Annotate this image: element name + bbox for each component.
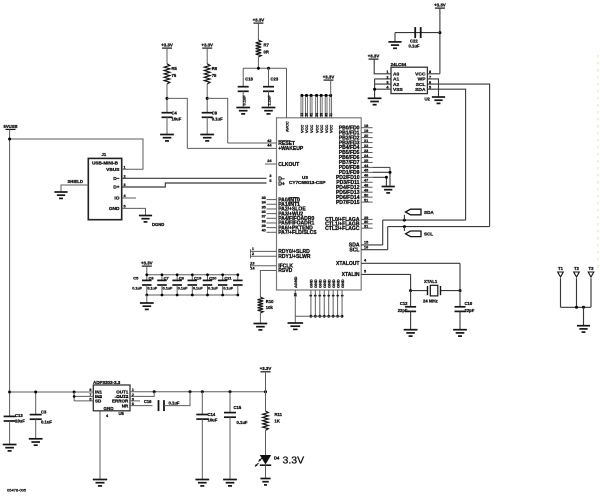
svg-text:0.1uF: 0.1uF bbox=[169, 401, 180, 406]
svg-text:10uF: 10uF bbox=[15, 419, 25, 424]
svg-text:VCC: VCC bbox=[415, 72, 426, 78]
svg-text:SCL: SCL bbox=[416, 82, 426, 88]
svg-text:5: 5 bbox=[364, 270, 366, 274]
svg-text:D+: D+ bbox=[113, 185, 119, 191]
svg-text:0.1uF: 0.1uF bbox=[223, 287, 233, 291]
svg-text:2: 2 bbox=[252, 252, 254, 256]
svg-text:1K: 1K bbox=[275, 419, 280, 424]
svg-text:42: 42 bbox=[267, 139, 271, 143]
svg-text:U3: U3 bbox=[302, 175, 308, 180]
svg-text:0.1uF: 0.1uF bbox=[147, 287, 157, 291]
svg-text:0.1uF: 0.1uF bbox=[193, 287, 203, 291]
svg-text:28: 28 bbox=[319, 113, 323, 117]
svg-text:46: 46 bbox=[364, 174, 368, 178]
svg-text:A1: A1 bbox=[393, 77, 400, 83]
svg-text:40: 40 bbox=[262, 229, 266, 233]
svg-text:0.1uF: 0.1uF bbox=[178, 287, 188, 291]
svg-text:39: 39 bbox=[262, 224, 266, 228]
svg-text:C19: C19 bbox=[194, 276, 202, 281]
svg-text:C4: C4 bbox=[172, 111, 178, 116]
svg-text:GND: GND bbox=[104, 406, 115, 411]
svg-text:3.3V: 3.3V bbox=[283, 455, 305, 467]
svg-text:9: 9 bbox=[336, 295, 340, 297]
svg-text:SDA: SDA bbox=[415, 87, 426, 93]
svg-text:C20: C20 bbox=[209, 276, 217, 281]
svg-text:C7: C7 bbox=[164, 276, 170, 281]
svg-text:47: 47 bbox=[364, 179, 368, 183]
svg-text:37: 37 bbox=[262, 215, 266, 219]
svg-text:0.1uF: 0.1uF bbox=[41, 420, 52, 425]
svg-text:+3.3V: +3.3V bbox=[201, 43, 213, 48]
svg-text:C8: C8 bbox=[179, 276, 185, 281]
svg-text:+3.3V: +3.3V bbox=[323, 75, 335, 80]
svg-text:43: 43 bbox=[324, 113, 328, 117]
svg-text:SDA: SDA bbox=[424, 210, 434, 215]
svg-text:15: 15 bbox=[364, 241, 368, 245]
svg-text:XTALOUT: XTALOUT bbox=[336, 261, 360, 267]
svg-text:R5: R5 bbox=[172, 66, 178, 71]
svg-text:U5: U5 bbox=[119, 411, 125, 416]
svg-text:18: 18 bbox=[364, 124, 368, 128]
svg-text:9: 9 bbox=[322, 295, 326, 297]
svg-text:1: 1 bbox=[252, 247, 254, 251]
svg-text:J1: J1 bbox=[102, 152, 107, 157]
svg-text:SCL: SCL bbox=[424, 232, 433, 237]
svg-text:RDY1/+SLWR: RDY1/+SLWR bbox=[278, 254, 311, 260]
svg-text:0.1uF: 0.1uF bbox=[208, 287, 218, 291]
svg-text:20: 20 bbox=[364, 134, 368, 138]
svg-text:C18: C18 bbox=[245, 77, 253, 82]
svg-text:2.2uF: 2.2uF bbox=[267, 95, 272, 106]
svg-text:U2: U2 bbox=[425, 97, 431, 102]
svg-text:33: 33 bbox=[262, 196, 266, 200]
svg-text:11: 11 bbox=[329, 113, 333, 117]
svg-text:C5: C5 bbox=[133, 276, 139, 281]
svg-text:21: 21 bbox=[364, 139, 368, 143]
svg-text:NR: NR bbox=[122, 403, 129, 408]
svg-text:22: 22 bbox=[364, 144, 368, 148]
svg-text:C14: C14 bbox=[208, 412, 216, 417]
svg-text:+3.3V: +3.3V bbox=[253, 18, 265, 23]
svg-text:22pF: 22pF bbox=[465, 308, 475, 313]
svg-text:+3.3V: +3.3V bbox=[434, 3, 446, 8]
svg-text:10uF: 10uF bbox=[208, 418, 218, 423]
svg-text:WP: WP bbox=[418, 77, 427, 83]
svg-text:AGND: AGND bbox=[293, 276, 298, 288]
svg-text:23: 23 bbox=[364, 149, 368, 153]
svg-text:PD7/FD15: PD7/FD15 bbox=[336, 200, 360, 206]
svg-text:31: 31 bbox=[364, 225, 368, 229]
svg-text:35: 35 bbox=[262, 205, 266, 209]
svg-text:RSVD: RSVD bbox=[278, 268, 292, 274]
svg-text:R10: R10 bbox=[266, 299, 274, 304]
svg-text:+3.3V: +3.3V bbox=[368, 54, 380, 59]
svg-text:0.1uF: 0.1uF bbox=[163, 287, 173, 291]
svg-text:CTL2/+FLAGC: CTL2/+FLAGC bbox=[325, 226, 360, 232]
svg-text:VCC: VCC bbox=[328, 125, 333, 133]
svg-text:29: 29 bbox=[364, 216, 368, 220]
svg-text:PA7/+FLD/SLCS: PA7/+FLD/SLCS bbox=[278, 230, 317, 236]
svg-text:9: 9 bbox=[309, 295, 313, 297]
svg-text:26: 26 bbox=[305, 113, 309, 117]
svg-text:D−: D− bbox=[113, 176, 119, 182]
svg-text:+3.3V: +3.3V bbox=[161, 43, 173, 48]
svg-text:9: 9 bbox=[340, 295, 344, 297]
svg-text:5VUSB: 5VUSB bbox=[4, 124, 18, 129]
svg-text:D4: D4 bbox=[274, 456, 280, 461]
svg-text:C13: C13 bbox=[15, 413, 23, 418]
svg-text:9: 9 bbox=[318, 295, 322, 297]
svg-text:10k: 10k bbox=[266, 305, 274, 310]
svg-text:38: 38 bbox=[262, 219, 266, 223]
svg-text:49: 49 bbox=[364, 189, 368, 193]
svg-text:13: 13 bbox=[250, 262, 254, 266]
svg-text:T1: T1 bbox=[558, 266, 564, 271]
svg-text:10uF: 10uF bbox=[172, 117, 182, 122]
svg-text:C10: C10 bbox=[465, 301, 473, 306]
svg-text:C21: C21 bbox=[224, 276, 232, 281]
svg-text:3: 3 bbox=[269, 174, 271, 178]
svg-text:C6: C6 bbox=[148, 276, 154, 281]
svg-text:25: 25 bbox=[364, 159, 368, 163]
svg-text:5: 5 bbox=[269, 179, 271, 183]
svg-text:36: 36 bbox=[262, 210, 266, 214]
svg-text:ADP3303-3.3: ADP3303-3.3 bbox=[93, 380, 121, 385]
svg-text:+WAKEUP: +WAKEUP bbox=[278, 146, 304, 152]
svg-text:VCC: VCC bbox=[309, 125, 314, 133]
svg-text:C12: C12 bbox=[400, 301, 408, 306]
svg-text:9: 9 bbox=[327, 295, 331, 297]
svg-text:GND: GND bbox=[109, 206, 120, 212]
svg-text:0.1uF: 0.1uF bbox=[241, 95, 246, 106]
svg-text:SCL: SCL bbox=[349, 248, 359, 254]
svg-text:CLKOUT: CLKOUT bbox=[278, 162, 300, 168]
svg-text:T3: T3 bbox=[589, 266, 595, 271]
svg-text:D+: D+ bbox=[278, 181, 285, 187]
svg-text:T2: T2 bbox=[574, 266, 580, 271]
svg-text:+3.3V: +3.3V bbox=[260, 366, 272, 371]
svg-text:24 MHz: 24 MHz bbox=[423, 299, 438, 304]
svg-text:0R: 0R bbox=[264, 50, 269, 55]
svg-text:10: 10 bbox=[294, 293, 298, 297]
svg-text:R7: R7 bbox=[264, 43, 270, 48]
svg-text:SD: SD bbox=[95, 399, 102, 404]
svg-text:C15: C15 bbox=[234, 405, 242, 410]
svg-text:SHIELD: SHIELD bbox=[68, 179, 83, 184]
svg-text:75: 75 bbox=[172, 73, 177, 78]
svg-text:75: 75 bbox=[212, 73, 217, 78]
svg-text:0.1uF: 0.1uF bbox=[212, 117, 223, 122]
svg-text:IO: IO bbox=[114, 196, 119, 202]
svg-text:24LC64: 24LC64 bbox=[391, 62, 407, 67]
svg-text:XTALIN: XTALIN bbox=[342, 272, 360, 278]
svg-text:C9: C9 bbox=[212, 111, 218, 116]
svg-text:45: 45 bbox=[364, 169, 368, 173]
svg-text:0.1uF: 0.1uF bbox=[237, 420, 248, 425]
svg-text:13: 13 bbox=[300, 113, 304, 117]
svg-text:48: 48 bbox=[364, 184, 368, 188]
svg-text:0.1uF: 0.1uF bbox=[132, 287, 142, 291]
svg-text:30: 30 bbox=[364, 220, 368, 224]
svg-text:54: 54 bbox=[315, 113, 319, 117]
svg-text:16: 16 bbox=[364, 246, 368, 250]
svg-text:0.1uF: 0.1uF bbox=[409, 44, 420, 49]
svg-text:GND: GND bbox=[340, 279, 345, 288]
svg-text:22pF: 22pF bbox=[398, 308, 408, 313]
svg-text:05478-005: 05478-005 bbox=[7, 488, 27, 493]
svg-text:VSS: VSS bbox=[393, 87, 404, 93]
svg-text:DGND: DGND bbox=[152, 222, 164, 227]
svg-text:+3.3V: +3.3V bbox=[141, 261, 153, 266]
svg-text:9: 9 bbox=[314, 295, 318, 297]
svg-text:XTAL1: XTAL1 bbox=[424, 279, 438, 284]
svg-text:41: 41 bbox=[309, 113, 313, 117]
svg-text:50: 50 bbox=[364, 194, 368, 198]
svg-text:51: 51 bbox=[364, 199, 368, 203]
svg-text:R6: R6 bbox=[212, 66, 218, 71]
svg-text:9: 9 bbox=[331, 295, 335, 297]
svg-text:C23: C23 bbox=[271, 77, 279, 82]
svg-text:R11: R11 bbox=[275, 412, 283, 417]
svg-text:USB-MINI-B: USB-MINI-B bbox=[92, 160, 118, 165]
svg-text:AVCC: AVCC bbox=[284, 121, 289, 132]
svg-text:A2: A2 bbox=[393, 82, 400, 88]
svg-text:A0: A0 bbox=[393, 72, 400, 78]
svg-text:VBUS: VBUS bbox=[106, 167, 120, 173]
svg-text:CY7C68013-CSP: CY7C68013-CSP bbox=[289, 180, 326, 186]
svg-text:C3: C3 bbox=[41, 410, 47, 415]
svg-text:C16: C16 bbox=[144, 399, 152, 404]
svg-text:19: 19 bbox=[364, 129, 368, 133]
